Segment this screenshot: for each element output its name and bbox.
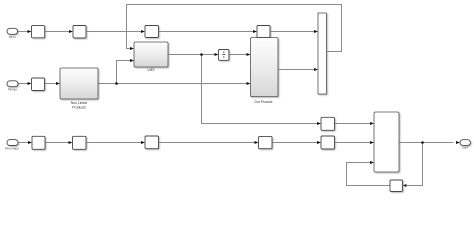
wire (202, 55, 318, 124)
svg-text:PA In Valid: PA In Valid (5, 146, 19, 150)
block B4 (bottom row col 4) (259, 136, 273, 148)
arrowhead into DP in2 (247, 82, 251, 85)
arrowhead into T3 (141, 30, 145, 33)
wire (347, 163, 391, 186)
block B (bottom right lower small) (321, 136, 335, 149)
block M1 (PA Out row col 1) (32, 78, 45, 91)
divide glyph (222, 52, 225, 58)
block LMS (134, 42, 168, 67)
arrowhead into C (points left) (403, 184, 407, 187)
svg-text:LMS: LMS (148, 68, 156, 72)
block Non Linear Products (60, 68, 98, 99)
wire (45, 142, 69, 144)
block B1 (bottom row col 1) (32, 136, 45, 149)
svg-text:Dot Product: Dot Product (255, 100, 273, 104)
arrowhead into B (317, 141, 321, 144)
arrowhead into LMS in1 (130, 47, 134, 50)
arrowhead into T1 (28, 30, 32, 33)
block divide (219, 50, 229, 61)
arrowhead into B3 (141, 141, 145, 144)
block D (big right block) (374, 112, 399, 172)
outport coef (460, 140, 470, 146)
arrowhead into NLP (56, 82, 60, 85)
wire (45, 83, 57, 85)
wire (229, 54, 247, 56)
block T1 (top row col 1) (32, 26, 45, 38)
block T3 (top row col 3) (145, 26, 159, 38)
arrowhead into mux in1 (314, 30, 318, 33)
wire (18, 83, 28, 85)
wire (335, 123, 371, 125)
block T2 (top row col 2) (73, 26, 86, 39)
wire (272, 142, 317, 144)
block B3 (bottom row col 3) (145, 136, 159, 149)
arrowhead into T4 (253, 30, 257, 33)
block A (bottom right upper small) (321, 117, 335, 130)
wire (98, 83, 247, 85)
block C (feedback delay, mirrored) (390, 180, 403, 192)
wire (159, 31, 254, 33)
arrowhead into coef outport (456, 141, 460, 144)
svg-text:PA Out: PA Out (8, 88, 17, 92)
arrowhead into T2 (69, 30, 73, 33)
arrowhead into D in1 (370, 122, 374, 125)
wire (18, 31, 28, 33)
arrowhead into DP in1 (247, 53, 251, 56)
wire (159, 142, 255, 144)
wire (86, 31, 141, 33)
arrowhead into mux in2 (314, 68, 318, 71)
block Dot Product (251, 38, 279, 97)
arrowhead into D in3 (370, 161, 374, 164)
wire (278, 69, 314, 71)
block B2 (bottom row col 2) (73, 136, 87, 149)
arrowhead into divide (215, 53, 219, 56)
svg-text:coef: coef (462, 146, 468, 150)
arrowhead into D in2 (370, 141, 374, 144)
mux / vector concatenate (318, 13, 327, 94)
svg-text:PA In: PA In (9, 35, 16, 39)
arrowhead into M1 (28, 82, 32, 85)
inport PA In Valid (7, 140, 18, 146)
wire (117, 61, 131, 84)
block T4 (top row col 4) (257, 26, 270, 38)
wire (168, 54, 215, 56)
arrowhead into A (317, 122, 321, 125)
wire (18, 142, 28, 144)
svg-text:Non Linear: Non Linear (71, 101, 88, 105)
svg-text:Products: Products (72, 106, 86, 110)
wire (399, 142, 454, 144)
wire (407, 143, 423, 186)
wire (45, 31, 70, 33)
inport PA In (7, 28, 18, 34)
inport PA Out (7, 81, 18, 87)
wire (127, 5, 342, 52)
wire (335, 142, 371, 144)
wire (86, 142, 141, 144)
junction node at NLP output (115, 82, 118, 85)
arrowhead into B2 (69, 141, 73, 144)
junction node at LMS output (200, 53, 203, 56)
wire (270, 31, 314, 33)
arrowhead into B4 (255, 141, 259, 144)
arrowhead into B1 (28, 141, 32, 144)
arrowhead into LMS in2 (130, 59, 134, 62)
junction node at D output (421, 141, 424, 144)
